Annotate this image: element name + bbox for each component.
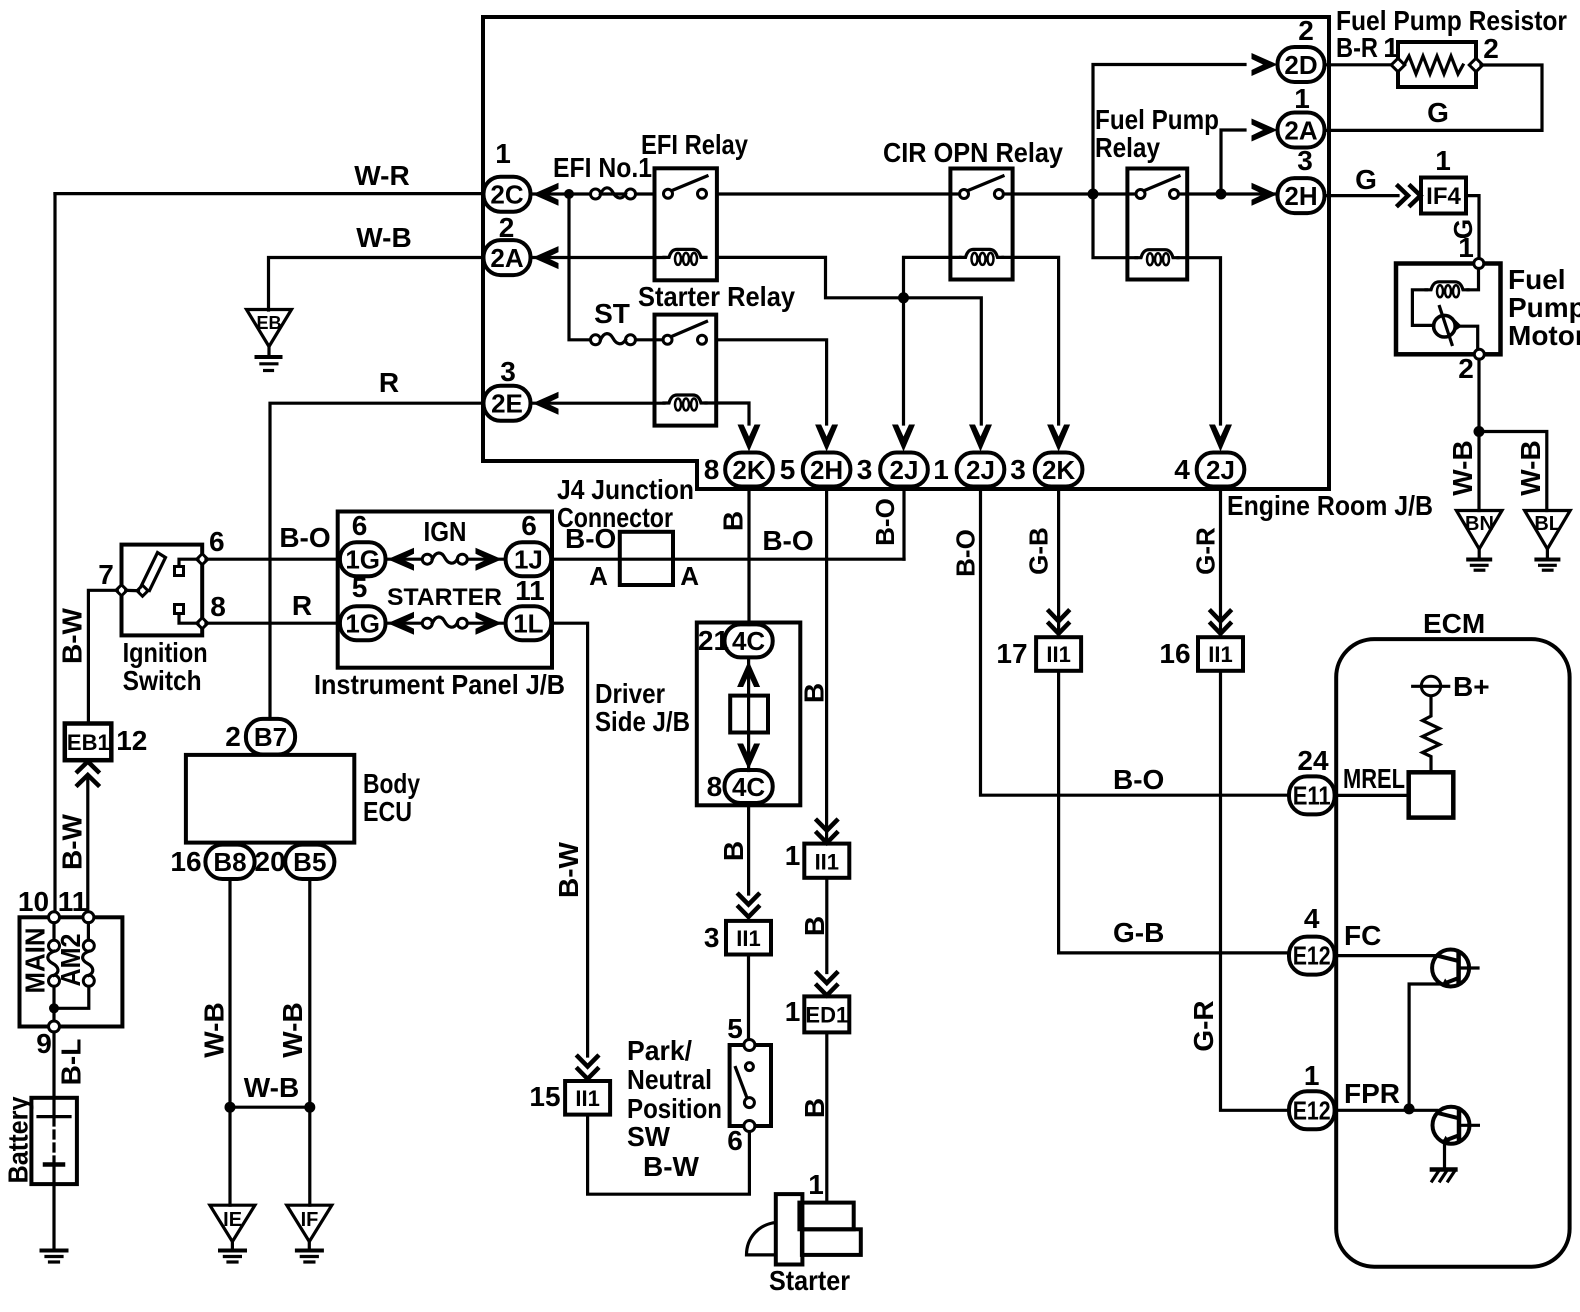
svg-text:R: R (379, 367, 399, 398)
svg-text:G-R: G-R (1188, 1000, 1219, 1051)
svg-text:16: 16 (170, 846, 201, 877)
connector 2K pin 8 (738, 425, 761, 452)
svg-text:2J: 2J (890, 455, 919, 485)
svg-text:B: B (717, 511, 748, 531)
wire W-B crossover (230, 1106, 310, 1109)
svg-text:2K: 2K (732, 455, 765, 485)
svg-text:Side J/B: Side J/B (595, 706, 690, 737)
battery BT1 (31, 1098, 77, 1184)
svg-text:20: 20 (255, 846, 286, 877)
svg-text:2: 2 (1298, 15, 1314, 46)
svg-text:2H: 2H (810, 455, 843, 485)
svg-text:7: 7 (98, 559, 114, 590)
svg-text:2J: 2J (1206, 455, 1235, 485)
wire FC to transistor (1335, 954, 1437, 957)
chevrons into II1 3 (739, 895, 759, 917)
connector 2J pin 4 (1209, 425, 1232, 452)
svg-text:W-B: W-B (244, 1072, 299, 1103)
wire B-W to AM2 (86, 777, 89, 912)
wire B-W to park/neutral SW pin 6 (588, 1115, 750, 1195)
wire B column below 2K(8) (747, 487, 750, 625)
wire G-B column below 2K(3) (1057, 489, 1060, 637)
ground IF (287, 1205, 332, 1241)
wire EFI coil to 2J(1) column (717, 257, 981, 424)
connector 2J pin 1 (969, 425, 992, 452)
svg-text:J4 Junction: J4 Junction (557, 474, 694, 505)
svg-text:II1: II1 (736, 926, 760, 951)
wire ST branch (569, 194, 590, 340)
ground BL (1525, 511, 1571, 550)
svg-text:2J: 2J (966, 455, 995, 485)
svg-text:8: 8 (707, 771, 723, 802)
svg-text:MREL: MREL (1343, 763, 1405, 794)
chevrons into II1 16 (1211, 611, 1230, 633)
wire MREL to driver block (1335, 794, 1409, 797)
power B+ (1421, 676, 1440, 695)
svg-text:16: 16 (1159, 638, 1190, 669)
svg-text:B: B (799, 916, 830, 936)
svg-text:2: 2 (1458, 353, 1474, 384)
svg-text:B-W: B-W (643, 1151, 700, 1182)
svg-text:BL: BL (1534, 513, 1561, 535)
svg-text:Park/: Park/ (627, 1035, 692, 1066)
ignition switch SW1 (122, 545, 203, 636)
chevrons into IF4 (1398, 186, 1421, 205)
svg-text:W-B: W-B (356, 222, 411, 253)
svg-text:Engine Room J/B: Engine Room J/B (1227, 490, 1433, 521)
svg-text:W-B: W-B (1447, 440, 1478, 495)
svg-text:SW: SW (627, 1121, 671, 1152)
wire starter relay coil right to 2K(8) column (706, 403, 749, 424)
wire 2A branch up (1221, 130, 1245, 194)
wire B-O column below 2J(1) (981, 489, 1290, 795)
svg-text:FPR: FPR (1344, 1078, 1400, 1109)
wire B-O pin6 to 1G (206, 558, 340, 561)
transistor Q1 FC (1432, 950, 1480, 987)
node at x1221 (1216, 189, 1227, 200)
svg-text:2C: 2C (490, 180, 523, 210)
wire FP coil right to 2J(4) column (1178, 258, 1221, 424)
svg-text:B-L: B-L (56, 1039, 87, 1086)
svg-text:B-O: B-O (762, 525, 813, 556)
ground IE (210, 1205, 255, 1241)
svg-text:5: 5 (727, 1013, 743, 1044)
svg-text:B: B (718, 841, 749, 861)
wire G-R column below 2J(4) (1219, 489, 1222, 637)
svg-text:B-O: B-O (279, 522, 330, 553)
chevrons into II1 15 (578, 1057, 598, 1079)
svg-text:1L: 1L (513, 609, 543, 639)
svg-text:B7: B7 (254, 722, 287, 752)
svg-text:A: A (680, 561, 699, 591)
ground battery (42, 1249, 67, 1253)
svg-text:1: 1 (808, 1169, 824, 1200)
arrow into 2A (533, 246, 559, 269)
chevrons into II1 17 (1049, 611, 1068, 633)
svg-text:A: A (589, 561, 608, 591)
svg-text:3: 3 (500, 356, 516, 387)
arrow up inside driver J/B (747, 657, 750, 695)
wire 2C to EFI relay (531, 192, 655, 195)
wire W-B from B8 (228, 879, 231, 1205)
connector 2K pin 3 (1047, 425, 1070, 452)
svg-text:8: 8 (704, 454, 720, 485)
svg-text:B-O: B-O (951, 529, 981, 577)
transistor Q2 FPR (1433, 1107, 1481, 1144)
svg-text:II1: II1 (1046, 642, 1070, 667)
svg-text:3: 3 (704, 922, 720, 953)
wire EFI relay coil left to 2A (531, 256, 665, 259)
svg-text:CIR OPN Relay: CIR OPN Relay (883, 137, 1063, 168)
ground EB (247, 310, 292, 347)
svg-text:3: 3 (857, 454, 873, 485)
svg-text:B5: B5 (293, 847, 326, 877)
wire W-B from motor to grounds (1477, 359, 1480, 510)
wires inside fuse box (52, 987, 55, 1022)
chevrons into ED1 (817, 973, 837, 995)
wire R from 2E to Body ECU B7 (270, 403, 484, 719)
svg-text:11: 11 (515, 575, 545, 606)
svg-text:ECU: ECU (363, 796, 412, 827)
wire G-B down to E12 (1059, 671, 1289, 953)
svg-text:1G: 1G (345, 609, 380, 639)
svg-text:BN: BN (1465, 513, 1494, 535)
svg-text:STARTER: STARTER (387, 584, 502, 611)
wire FP coil left and 2D feed (1093, 65, 1245, 258)
svg-text:5: 5 (780, 454, 796, 485)
wire B to park/neutral (747, 955, 750, 1041)
svg-text:EB: EB (256, 313, 281, 333)
svg-text:1: 1 (933, 454, 949, 485)
svg-text:Instrument Panel J/B: Instrument Panel J/B (314, 669, 565, 700)
connector 2J pin 3 (892, 425, 915, 452)
svg-text:IF4: IF4 (1426, 183, 1461, 210)
svg-text:6: 6 (521, 510, 537, 541)
svg-text:W-B: W-B (277, 1002, 308, 1057)
svg-text:B+: B+ (1453, 671, 1490, 702)
connector EB1 pin 12 (65, 724, 112, 761)
svg-text:4C: 4C (732, 626, 765, 656)
wire FP relay to 2H oval (1179, 192, 1278, 195)
Driver Side J/B box (697, 623, 801, 806)
fuse AM2 (87, 923, 90, 940)
svg-text:1: 1 (785, 996, 801, 1027)
svg-text:Starter Relay: Starter Relay (638, 281, 795, 312)
wire W-R (55, 192, 484, 195)
svg-text:9: 9 (36, 1028, 52, 1059)
svg-text:MAIN: MAIN (20, 928, 51, 994)
svg-text:2H: 2H (1284, 181, 1317, 211)
Instrument Panel J/B box (338, 512, 552, 668)
svg-text:1: 1 (1458, 232, 1474, 263)
wire starter relay switch to 2H(5) column (716, 340, 826, 424)
svg-text:W-R: W-R (354, 160, 409, 191)
svg-text:2A: 2A (490, 243, 523, 273)
svg-text:6: 6 (352, 510, 368, 541)
svg-text:Relay: Relay (1095, 132, 1160, 163)
svg-text:4: 4 (1304, 903, 1320, 934)
wire pin7 to EB1 (88, 590, 117, 723)
svg-text:E12: E12 (1293, 941, 1331, 971)
wire B column below 2H(5) (825, 489, 828, 844)
ground BN (1456, 511, 1502, 550)
svg-text:11: 11 (58, 886, 88, 917)
svg-text:1: 1 (785, 840, 801, 871)
wire R pin8 to 1G (206, 622, 340, 625)
svg-text:5: 5 (352, 572, 368, 603)
svg-text:Body: Body (363, 768, 420, 799)
starter M2 (747, 1223, 776, 1255)
svg-text:8: 8 (210, 591, 226, 622)
wire B-W from 1L to II1 15 (551, 623, 587, 1056)
svg-text:Fuel Pump: Fuel Pump (1095, 104, 1219, 135)
svg-text:4: 4 (1174, 454, 1190, 485)
arrow into 2C (533, 183, 559, 206)
svg-text:B-W: B-W (57, 813, 88, 870)
svg-text:B-O: B-O (1113, 764, 1164, 795)
Body ECU box (186, 755, 354, 843)
svg-text:2A: 2A (1284, 116, 1317, 146)
svg-text:B-R: B-R (1336, 32, 1378, 63)
wire CIR coil left to 2J(3) column (904, 257, 961, 424)
node EFI No.1 junction (564, 189, 574, 199)
svg-text:1: 1 (495, 138, 511, 169)
svg-text:G: G (1355, 164, 1377, 195)
svg-text:II1: II1 (575, 1086, 599, 1111)
node at x1093 (1088, 189, 1099, 200)
Engine Room J/B outline (483, 17, 1329, 489)
svg-text:W-B: W-B (199, 1002, 230, 1057)
svg-text:Pump: Pump (1508, 292, 1580, 323)
svg-text:6: 6 (727, 1125, 743, 1156)
svg-text:Battery: Battery (2, 1096, 33, 1183)
svg-text:1: 1 (1294, 83, 1310, 114)
svg-text:EFI No.1: EFI No.1 (553, 152, 652, 183)
wire B column to II1 1 (817, 821, 837, 843)
svg-text:B8: B8 (213, 847, 246, 877)
wire IF4 to fuel pump motor (1466, 196, 1479, 259)
svg-text:Starter: Starter (769, 1265, 850, 1296)
svg-text:4C: 4C (732, 772, 765, 802)
svg-text:3: 3 (1010, 454, 1026, 485)
svg-text:10: 10 (18, 886, 49, 917)
svg-text:EFI Relay: EFI Relay (641, 129, 748, 160)
svg-text:G-B: G-B (1113, 917, 1164, 948)
wire FPR to transistor (1335, 1109, 1437, 1112)
node coil junction (898, 292, 909, 303)
svg-text:Position: Position (627, 1093, 722, 1124)
wire B below 4C (747, 803, 750, 894)
MREL driver block (1409, 772, 1454, 817)
svg-text:Fuel: Fuel (1508, 264, 1566, 295)
svg-text:2E: 2E (491, 389, 523, 419)
svg-text:ED1: ED1 (805, 1003, 848, 1028)
svg-text:G-R: G-R (1191, 527, 1221, 575)
svg-text:B-O: B-O (870, 498, 900, 546)
svg-text:Switch: Switch (123, 665, 202, 696)
fuel pump motor M1 (1396, 264, 1501, 355)
wire B to ED1 (825, 878, 828, 973)
wire FC emitter to FPR node (1409, 984, 1445, 1109)
svg-text:IGN: IGN (424, 516, 467, 547)
svg-text:17: 17 (996, 638, 1027, 669)
svg-text:24: 24 (1297, 745, 1329, 776)
svg-text:1: 1 (1304, 1060, 1320, 1091)
wire G loop resistor to 2A (1325, 65, 1543, 130)
wire EFI relay to CIR OPN relay (717, 192, 960, 195)
svg-text:Motor: Motor (1508, 320, 1580, 351)
wire W-B to ground EB (269, 258, 484, 311)
svg-text:B: B (799, 683, 830, 703)
fuse ST (591, 334, 636, 345)
relay block rect (730, 696, 768, 733)
svg-text:2D: 2D (1284, 50, 1317, 80)
wire below 2J(3) (902, 489, 905, 559)
arrow down inside driver J/B (737, 744, 760, 770)
svg-text:B-W: B-W (57, 607, 88, 664)
svg-text:1: 1 (1435, 145, 1451, 176)
svg-text:Driver: Driver (595, 678, 665, 709)
svg-text:IE: IE (223, 1209, 242, 1231)
arrow into 2E (533, 392, 559, 415)
svg-text:12: 12 (116, 725, 147, 756)
svg-text:AM2: AM2 (55, 934, 86, 987)
chevrons below EB1 (78, 762, 98, 786)
svg-text:E11: E11 (1293, 781, 1331, 811)
wire CIR OPN to Fuel Pump relay (1004, 192, 1137, 195)
resistor R1 (1423, 696, 1440, 773)
svg-text:ST: ST (594, 298, 630, 329)
svg-text:B-W: B-W (553, 841, 584, 898)
svg-text:3: 3 (1297, 145, 1313, 176)
connector 2H pin 5 (815, 425, 838, 452)
svg-text:2K: 2K (1042, 455, 1075, 485)
svg-text:ECM: ECM (1423, 608, 1485, 639)
svg-text:EB1: EB1 (67, 730, 110, 755)
svg-text:6: 6 (209, 526, 225, 557)
wire B-L to battery (52, 1032, 55, 1098)
svg-text:II1: II1 (815, 850, 839, 875)
svg-text:Ignition: Ignition (123, 637, 208, 668)
wire W-B from B5 (308, 879, 311, 1205)
wire main battery feed vertical (53, 194, 56, 918)
svg-text:E12: E12 (1293, 1095, 1331, 1125)
svg-text:Neutral: Neutral (627, 1064, 712, 1095)
svg-text:2: 2 (1483, 33, 1499, 64)
svg-text:B-O: B-O (565, 523, 616, 554)
wire G 2H to IF4 (1325, 194, 1399, 197)
svg-text:R: R (292, 590, 312, 621)
ECM box (1336, 639, 1569, 1267)
fuse EFI No.1 (591, 188, 636, 199)
wire CIR coil right to 2K(3) column (1003, 257, 1059, 424)
svg-text:2: 2 (225, 721, 241, 752)
svg-text:W-B: W-B (1515, 440, 1546, 495)
svg-text:G: G (1427, 97, 1449, 128)
wire G-R down to E12 FPR (1221, 671, 1290, 1111)
wire B-O from 1J through J4 (551, 558, 904, 561)
svg-text:IF: IF (301, 1209, 319, 1231)
svg-text:1G: 1G (345, 545, 380, 575)
ground at Q2 emitter (1443, 1141, 1446, 1169)
svg-text:1J: 1J (514, 545, 543, 575)
svg-text:FC: FC (1344, 920, 1381, 951)
wire B to starter (825, 1032, 828, 1202)
svg-text:G-B: G-B (1024, 527, 1054, 575)
svg-text:15: 15 (529, 1081, 560, 1112)
wire starter relay coil left to 2E (531, 402, 665, 405)
fuse MAIN (52, 923, 55, 940)
svg-text:B: B (799, 1098, 830, 1118)
svg-text:II1: II1 (1208, 642, 1232, 667)
